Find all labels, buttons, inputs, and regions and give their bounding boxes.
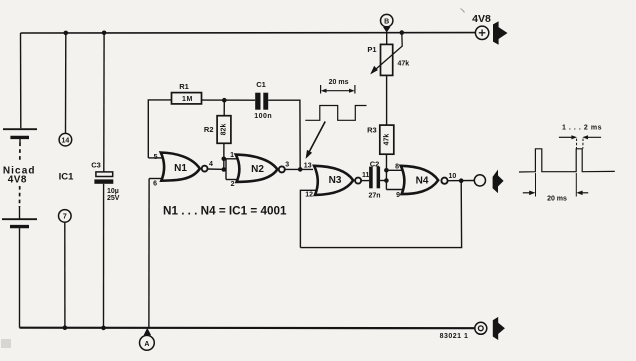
svg-text:47k: 47k xyxy=(398,60,410,67)
capacitor C2 27n xyxy=(369,167,380,189)
wire N2 out to node 13 xyxy=(285,168,313,170)
arrow top right xyxy=(493,21,508,44)
wire bottom supply rail xyxy=(20,327,475,330)
svg-text:4V8: 4V8 xyxy=(472,13,491,25)
node 13 junction xyxy=(298,167,303,172)
svg-text:6: 6 xyxy=(153,180,157,187)
wire C2 to N4 input node xyxy=(380,180,386,182)
smudge bottom left xyxy=(1,339,11,348)
svg-text:82k: 82k xyxy=(221,124,228,136)
junction top rail C3 xyxy=(102,31,107,36)
svg-text:7: 7 xyxy=(63,214,67,221)
svg-text:N2: N2 xyxy=(251,164,264,175)
resistor R2 82k xyxy=(223,100,225,116)
measure lines 20ms xyxy=(535,173,537,197)
svg-text:A: A xyxy=(144,341,149,348)
svg-text:100n: 100n xyxy=(254,113,272,120)
wire R2 bottom xyxy=(223,143,225,169)
junction bottom rail C3 xyxy=(101,326,106,331)
NOR gate N4 xyxy=(386,163,456,199)
junction R2 top xyxy=(222,98,227,103)
wire feedback N4 out to N3 pin12 xyxy=(300,181,461,248)
battery BT1 Nicad 4V8 xyxy=(2,129,37,328)
pin 14 of IC1 xyxy=(59,133,72,146)
svg-text:1: 1 xyxy=(230,152,234,159)
svg-text:R3: R3 xyxy=(367,125,377,134)
wire astable top loop xyxy=(148,100,171,158)
svg-text:3: 3 xyxy=(285,161,289,168)
wire N4 out to output terminal xyxy=(448,180,475,182)
wire C1 to node 13 xyxy=(268,100,300,169)
svg-text:13: 13 xyxy=(304,162,312,169)
svg-text:83021 1: 83021 1 xyxy=(440,333,469,340)
wire IC1 pin7 drop xyxy=(64,222,66,328)
arrow output xyxy=(493,170,504,194)
arrow pointing to node 13 xyxy=(308,122,325,154)
resistor R1 1M xyxy=(172,93,202,104)
svg-text:R2: R2 xyxy=(204,125,214,134)
arrow bottom right xyxy=(493,317,505,340)
svg-text:C3: C3 xyxy=(91,160,101,169)
pulse waveform xyxy=(519,149,615,172)
svg-text:1 . . . 2 ms: 1 . . . 2 ms xyxy=(562,124,602,131)
terminal plus xyxy=(475,26,488,39)
svg-text:47k: 47k xyxy=(383,134,390,146)
svg-text:R1: R1 xyxy=(179,82,189,91)
annotation output pulses 1..2ms / 20ms xyxy=(519,124,615,202)
terminal O bottom xyxy=(475,322,487,334)
pin 7 of IC1 xyxy=(59,210,72,223)
svg-text:10: 10 xyxy=(449,173,457,180)
svg-text:5: 5 xyxy=(154,154,158,161)
output terminal circle xyxy=(474,175,485,186)
wire N1 out to N2 in xyxy=(208,168,227,170)
wire left rail to battery xyxy=(20,33,22,128)
svg-text:C1: C1 xyxy=(256,80,266,89)
svg-text:IC1: IC1 xyxy=(59,172,75,183)
svg-text:P1: P1 xyxy=(367,45,376,54)
wire IC1 pin14 drop xyxy=(65,33,67,133)
junction bottom rail IC1 xyxy=(63,325,68,330)
svg-text:N1: N1 xyxy=(174,163,187,174)
svg-text:12: 12 xyxy=(305,192,313,199)
annotation 20ms square wave xyxy=(305,79,366,159)
wire P1 to R3 xyxy=(386,75,388,125)
junction top rail IC1 xyxy=(64,31,69,36)
wire C3 top drop xyxy=(103,33,105,172)
speck artifact top right xyxy=(461,9,465,13)
svg-text:20 ms: 20 ms xyxy=(547,196,567,203)
svg-text:25V: 25V xyxy=(107,195,120,202)
node A marker xyxy=(140,328,155,350)
wire R3 to N4 input xyxy=(385,154,387,189)
svg-text:4V8: 4V8 xyxy=(8,174,27,185)
node B marker xyxy=(381,14,393,32)
NOR gate N3 xyxy=(300,166,369,248)
NOR gate N2 xyxy=(224,152,289,188)
svg-text:N1 . . . N4 = IC1 = 4001: N1 . . . N4 = IC1 = 4001 xyxy=(163,205,287,218)
svg-text:9: 9 xyxy=(396,192,400,199)
svg-text:1M: 1M xyxy=(182,96,193,103)
svg-text:B: B xyxy=(384,19,389,26)
resistor R3 47k xyxy=(380,125,394,154)
junction P1 wiper on rail xyxy=(400,30,405,35)
svg-text:27n: 27n xyxy=(368,193,380,200)
wire C3 bottom drop xyxy=(103,184,105,328)
svg-text:8: 8 xyxy=(395,163,399,170)
svg-text:10µ: 10µ xyxy=(107,188,119,195)
NOR gate N1 xyxy=(148,153,213,328)
svg-text:N4: N4 xyxy=(416,175,429,186)
capacitor C1 100n xyxy=(255,93,268,110)
wire top supply rail xyxy=(21,32,476,34)
svg-text:4: 4 xyxy=(209,161,213,168)
capacitor C3 10u 25V electrolytic xyxy=(94,172,113,184)
svg-text:14: 14 xyxy=(62,137,70,144)
wire N3 out to C2 xyxy=(361,180,369,182)
svg-text:C2: C2 xyxy=(370,159,380,168)
junction N4 output xyxy=(459,178,464,183)
svg-text:11: 11 xyxy=(362,172,370,179)
wire R1 to C1 xyxy=(202,99,256,101)
svg-text:20 ms: 20 ms xyxy=(329,79,349,86)
svg-text:N3: N3 xyxy=(329,175,342,186)
svg-text:2: 2 xyxy=(231,181,235,188)
potentiometer P1 47k xyxy=(367,33,409,76)
